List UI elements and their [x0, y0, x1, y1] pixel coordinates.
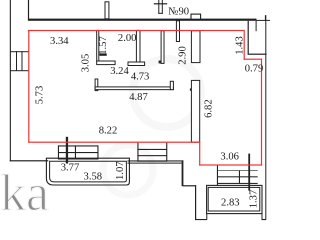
wall W2 horizontal — [95, 87, 173, 90]
radiator left rungs — [58, 145, 98, 146]
red outline left — [28, 30, 29, 143]
svg-text:1.57: 1.57 — [98, 36, 109, 55]
radiator right verticals — [217, 165, 218, 186]
step wall horizontal — [248, 54, 267, 55]
top building wall — [28, 19, 257, 21]
red outline mid vertical — [199, 142, 200, 166]
svg-text:3.34: 3.34 — [50, 36, 69, 47]
left window — [10, 51, 28, 52]
wall W2 right tick — [170, 81, 173, 89]
red outline step horizontal — [244, 59, 263, 60]
radiator middle — [137, 143, 138, 162]
partition P2 vertical — [136, 30, 140, 62]
svg-text:2.00: 2.00 — [118, 33, 137, 44]
balcony 2 inner — [208, 187, 260, 211]
chimney — [105, 2, 109, 19]
svg-text:0.79: 0.79 — [245, 63, 264, 74]
svg-text:3.06: 3.06 — [220, 151, 239, 162]
partition P4 — [176, 21, 179, 42]
balcony 1 inner — [50, 161, 127, 182]
wall stub — [256, 21, 257, 31]
balcony 2 outer — [207, 185, 262, 213]
top wall thin extension — [257, 20, 271, 21]
svg-text:3.05: 3.05 — [81, 54, 92, 73]
svg-text:3.58: 3.58 — [84, 172, 103, 183]
svg-text:4.73: 4.73 — [131, 71, 150, 82]
porch step horizontal — [183, 185, 196, 186]
step wall vertical — [248, 21, 249, 55]
door post right — [248, 154, 250, 191]
svg-text:4.87: 4.87 — [129, 92, 148, 103]
right building edge — [265, 15, 266, 220]
partition P1 foot — [97, 61, 115, 65]
svg-text:2.83: 2.83 — [221, 198, 240, 209]
porch right wall — [182, 160, 184, 186]
porch step vertical — [195, 185, 196, 219]
red outline bottom-left — [28, 142, 200, 143]
red outline step vertical — [244, 30, 245, 60]
partition P1 vertical — [97, 30, 99, 61]
svg-text:ka: ka — [0, 165, 49, 222]
svg-text:1.37: 1.37 — [249, 190, 260, 209]
partition P3 foot — [159, 61, 162, 64]
top-right tick — [265, 15, 266, 20]
door post left — [66, 137, 68, 164]
radiator left verticals — [58, 145, 59, 159]
balcony 2 bottom-right connector — [262, 214, 263, 220]
red outline top — [28, 30, 245, 31]
wall bump — [191, 14, 201, 19]
radiator right rungs — [217, 170, 258, 171]
wall W3 — [191, 80, 199, 142]
top-left corner vertical wall — [28, 0, 29, 20]
watermark rings — [0, 59, 201, 222]
partition P3 vertical — [161, 31, 164, 64]
porch bottom horizontal — [195, 219, 207, 220]
svg-text:5.73: 5.73 — [35, 86, 46, 105]
partition P2 foot — [128, 62, 145, 66]
svg-text:№90: №90 — [168, 7, 189, 18]
svg-text:2.90: 2.90 — [178, 46, 189, 65]
svg-text:1.43: 1.43 — [235, 36, 246, 55]
svg-text:3.24: 3.24 — [110, 66, 129, 77]
svg-text:3.77: 3.77 — [61, 163, 80, 174]
red outline right vertical — [261, 59, 262, 166]
porch top double line — [128, 160, 184, 161]
porch tab vertical — [206, 214, 207, 220]
balcony 1 outer — [46, 158, 129, 185]
svg-text:1.07: 1.07 — [115, 161, 126, 180]
wall W2 left vertical — [95, 79, 98, 91]
survey mark — [154, 3, 167, 4]
svg-text:8.22: 8.22 — [99, 126, 118, 137]
left building wall — [10, 0, 11, 162]
bottom-left wall — [10, 160, 49, 161]
red outline bottom-right — [199, 164, 262, 165]
shaft S1 — [191, 31, 200, 63]
tick T1 — [99, 53, 106, 55]
svg-text:6.82: 6.82 — [203, 99, 214, 118]
wall W3 tab — [190, 88, 192, 90]
